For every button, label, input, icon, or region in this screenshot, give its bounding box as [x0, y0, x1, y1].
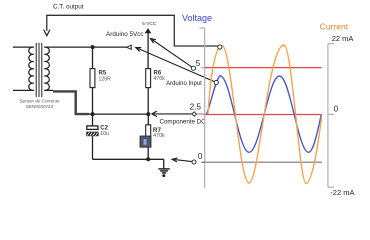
svg-text:R5: R5 [99, 71, 107, 77]
annotation arrow to 5VCC [151, 39, 192, 68]
chart zero volt line [205, 161, 322, 163]
marker circle on current curve [218, 45, 222, 49]
svg-text:SEN0030723: SEN0030723 [26, 104, 54, 109]
wire primary bottom lead [13, 89, 34, 91]
annotation arrow componente DC [152, 113, 193, 115]
wire R7 bottom lead [147, 147, 149, 159]
tick zero left [201, 161, 204, 163]
curve voltage blue [206, 76, 321, 153]
svg-text:120R: 120R [99, 77, 112, 83]
wire primary top lead [13, 46, 34, 48]
marker circle 5V level [191, 66, 195, 70]
svg-text:0: 0 [198, 152, 203, 161]
annotation arrow to input pin [136, 48, 215, 82]
chart red line 5V [205, 67, 322, 69]
transformer T1 secondary winding [44, 47, 49, 90]
resistor R7 [140, 125, 151, 147]
svg-text:0: 0 [334, 105, 339, 114]
wire C2 top lead [92, 114, 94, 125]
wire thick selected segment [53, 91, 89, 114]
transformer T1 primary winding [29, 47, 34, 90]
wire middle rail [89, 113, 148, 115]
curve current orange [208, 45, 322, 184]
power 5VCC symbol [145, 28, 152, 33]
wire C2 bottom lead [92, 136, 94, 159]
svg-text:C.T. output: C.T. output [53, 4, 84, 11]
svg-text:Componente DC: Componente DC [160, 119, 207, 126]
svg-text:5: 5 [196, 59, 201, 68]
wire R5 top lead [92, 47, 94, 69]
chart red line 2.5V [205, 114, 322, 116]
svg-text:-22 mA: -22 mA [330, 188, 354, 197]
svg-text:2.5: 2.5 [190, 103, 202, 112]
svg-text:22 mA: 22 mA [332, 34, 354, 43]
svg-text:10u: 10u [100, 131, 109, 137]
marker diamond 2.5 level [192, 112, 196, 116]
marker circle 0V level [192, 160, 196, 164]
capacitor C2 [86, 126, 98, 136]
transformer T1 core [36, 43, 42, 97]
node junction R7 bottom [146, 157, 150, 161]
wire bottom rail [93, 158, 164, 160]
svg-text:Voltage: Voltage [182, 13, 212, 23]
marker circle on voltage curve [214, 80, 218, 84]
resistor R6 [146, 69, 151, 88]
annotation C.T. output leader line [47, 15, 218, 46]
node junction R6 bottom / R7 top [146, 112, 150, 116]
chart right axis [328, 44, 334, 188]
wire secondary top rail [44, 46, 126, 48]
svg-text:470k: 470k [154, 76, 166, 82]
svg-text:470k: 470k [153, 133, 165, 139]
wire R5 bottom lead [92, 88, 94, 115]
wire R7 top lead [147, 114, 149, 125]
resistor R5 [90, 69, 95, 88]
svg-text:Current: Current [320, 22, 349, 32]
wire secondary bottom lead [44, 89, 53, 91]
svg-text:5 VCC: 5 VCC [142, 21, 157, 27]
node junction R5 bottom / C2 top [91, 112, 95, 116]
annotation arrow ground zero [172, 159, 192, 161]
pin arduino input triangle [127, 45, 132, 49]
node junction R5 top [91, 45, 95, 49]
ground [158, 159, 169, 173]
svg-text:Arduino 5Vcc: Arduino 5Vcc [106, 31, 143, 38]
chart left axis [199, 28, 204, 188]
svg-text:Arduino Input: Arduino Input [166, 81, 202, 87]
wire R6 bottom lead [147, 88, 149, 115]
